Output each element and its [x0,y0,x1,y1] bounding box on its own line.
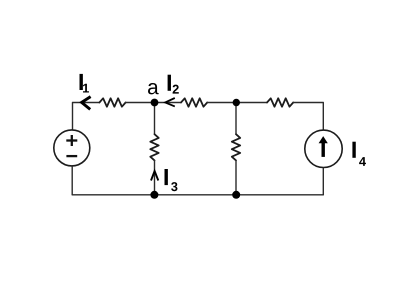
bottom-right junction dot [232,191,240,199]
label I3 main [165,169,168,185]
resistor R3 (top right) [267,98,293,106]
node a junction dot [151,99,159,107]
current arrow I1 (points left) [82,97,91,110]
label I4 subscript 4 [359,157,366,166]
wire top between node b and R3 [236,102,267,104]
voltage source V1 circle [54,130,90,166]
resistor R5 (right vertical) [232,134,240,160]
label I3 subscript 3 [171,182,177,191]
label I1 main [79,74,82,90]
resistor R4 (left vertical) [150,134,158,160]
label I4 main [352,142,355,158]
wire right rail below current source [322,168,324,195]
wire bottom rail [72,194,323,196]
current arrow I2 (points left) [165,98,175,106]
wire top between node a and R2 [155,102,182,104]
current source arrow (up) [319,136,328,157]
wire R4 down to bottom [154,160,156,194]
resistor R2 (top middle) [181,98,207,106]
label node a text [148,83,159,94]
wire top-left segment [73,103,100,130]
label I2 subscript 2 [173,85,179,94]
wire top between R1 and node a [126,102,155,104]
wire R5 down to bottom [235,160,237,194]
node b junction dot [233,99,240,106]
wire node b down to R5 [235,103,237,135]
V1 plus sign [66,135,77,146]
label I1 subscript 1 [83,84,89,93]
wire top-right corner down to current source [293,103,323,130]
wire left rail below V1 [71,167,73,195]
resistor R1 (top left) [99,98,125,106]
wire node a down to R4 [154,103,156,135]
wire top between R2 and node b [207,102,236,104]
bottom-left junction dot [150,191,158,199]
V1 minus sign [66,155,77,157]
label I2 main [168,75,171,91]
current arrow I3 (points up) [151,171,158,181]
current source I4 circle [305,130,342,167]
